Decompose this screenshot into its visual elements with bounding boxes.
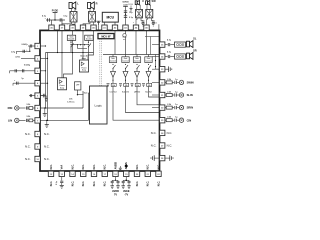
svg-text:N.C.: N.C. [135,181,139,187]
svg-text:VrA: VrA [60,165,64,170]
svg-text:CIN: CIN [187,118,192,122]
svg-text:1.2Vrms: 1.2Vrms [67,102,76,104]
svg-text:N.C.: N.C. [25,145,31,149]
svg-text:N.C.: N.C. [70,181,74,187]
svg-text:SL: SL [193,36,197,40]
svg-text:N.C.: N.C. [167,144,173,148]
svg-text:0.022µ: 0.022µ [24,64,31,66]
svg-text:N.C.: N.C. [167,131,173,135]
svg-text:SWIN: SWIN [187,81,194,85]
svg-text:Amp: Amp [82,69,86,72]
svg-text:Double: Double [86,39,92,41]
svg-text:SW: SW [152,0,157,3]
svg-text:N.C.: N.C. [44,157,50,161]
svg-text:N.C.: N.C. [103,164,107,170]
svg-text:+: + [133,22,134,24]
svg-text:LPF: LPF [76,84,79,86]
svg-text:N.C.: N.C. [146,181,150,187]
svg-text:osc: osc [123,39,126,41]
svg-text:N.C.: N.C. [156,164,160,170]
svg-text:MCU I/F: MCU I/F [101,36,111,39]
svg-text:MCU: MCU [107,16,115,20]
svg-text:RIN: RIN [8,106,13,110]
svg-text:0.047µ: 0.047µ [22,43,29,46]
svg-text:N.C.: N.C. [151,144,157,148]
svg-text:AVDD: AVDD [113,162,117,169]
svg-text:N.C.: N.C. [92,164,96,170]
svg-text:N.C.: N.C. [25,132,31,136]
svg-text:-7V: -7V [124,193,128,196]
svg-text:LIN: LIN [8,119,12,123]
svg-text:AVSS: AVSS [124,162,128,169]
svg-text:SR: SR [193,48,197,52]
svg-text:SRIN: SRIN [187,106,193,110]
svg-text:C: C [142,0,144,3]
svg-text:Logic: Logic [94,103,102,107]
svg-text:+: + [45,18,46,20]
svg-text:Gain: Gain [147,58,151,60]
svg-text:N.C.: N.C. [92,181,96,187]
svg-text:N.C.: N.C. [44,145,50,149]
svg-text:Sub Vol: Sub Vol [122,91,129,93]
svg-text:Double: Double [69,39,75,41]
svg-text:N.C.: N.C. [49,164,53,170]
svg-text:N.C.: N.C. [156,181,160,187]
svg-text:20k: 20k [125,85,128,87]
svg-text:N.C.: N.C. [70,164,74,170]
svg-text:Gain: Gain [135,58,139,60]
svg-text:R: R [96,2,98,6]
svg-text:Sur Vol: Sur Vol [145,91,152,93]
svg-text:Gain: Gain [111,58,115,60]
svg-text:Gain: Gain [124,58,128,60]
svg-text:20k: 20k [148,85,151,87]
svg-text:N.C.: N.C. [135,164,139,170]
svg-text:N.C.: N.C. [44,132,50,136]
svg-text:7V: 7V [114,193,117,196]
svg-text:N.C.: N.C. [103,181,107,187]
svg-text:N.C.: N.C. [81,181,85,187]
svg-text:L/R Vol: L/R Vol [134,91,141,93]
svg-text:SLIN: SLIN [187,93,193,97]
svg-text:N.C.: N.C. [146,164,150,170]
svg-text:N.C.: N.C. [81,164,85,170]
svg-text:Amp: Amp [60,86,64,89]
svg-text:20k: 20k [136,85,139,87]
svg-text:4.7Ω: 4.7Ω [15,55,20,58]
svg-text:20k: 20k [112,85,115,87]
svg-text:N.C.: N.C. [151,131,157,135]
svg-text:Cen Vol: Cen Vol [110,91,117,93]
svg-text:N.C.: N.C. [25,157,31,161]
svg-text:N.C.: N.C. [49,181,53,187]
